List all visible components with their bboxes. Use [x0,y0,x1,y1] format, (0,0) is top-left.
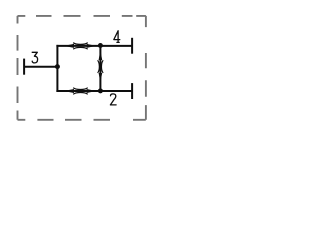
right wedge [87,44,97,48]
pinch curves [98,60,104,73]
label node 2 [110,94,116,105]
junction dot node 3 [55,64,60,69]
wire left vertical [56,45,58,92]
wire node 3 [24,66,57,68]
pinch curves [73,88,88,95]
junction dot node 4 [98,43,103,48]
port 2 tick [131,83,133,99]
bottom wedge [99,73,103,83]
wire bottom rail [56,90,132,92]
wire right vertical branch [99,46,101,91]
top wedge [99,50,103,60]
junction dot node 2 [98,88,103,93]
top border dashes [18,15,146,17]
port 4 tick [131,38,133,54]
left border dashes [17,16,19,120]
element right vertical branch: double arrow with pinch [98,50,104,83]
dashed subcircuit boundary box [18,16,146,120]
pinch curves [73,43,88,50]
bottom border dashes [18,119,146,121]
right wedge [87,89,97,93]
element bottom branch: double arrow with pinch [64,88,96,95]
left wedge [64,44,74,48]
element top branch: double arrow with pinch [64,43,96,50]
wire top rail [56,45,132,47]
right border dashes [145,16,147,120]
circuit wires [24,38,132,99]
port 3 tick [23,59,25,75]
label node 4 [114,31,120,43]
left wedge [64,89,74,93]
label node 3 [32,52,37,63]
